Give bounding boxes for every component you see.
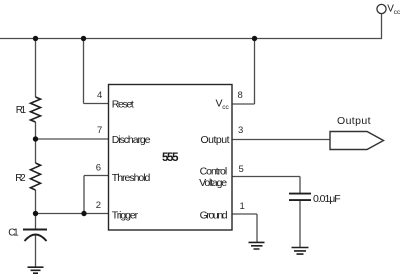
svg-text:Output: Output	[337, 115, 371, 127]
svg-text:5: 5	[239, 164, 244, 175]
svg-text:cc: cc	[222, 104, 229, 111]
svg-text:cc: cc	[394, 9, 400, 16]
svg-text:2: 2	[96, 200, 101, 211]
svg-text:8: 8	[238, 90, 243, 101]
svg-text:R1: R1	[16, 105, 27, 116]
svg-text:Output: Output	[201, 134, 230, 146]
svg-text:1: 1	[240, 201, 245, 212]
svg-text:6: 6	[96, 162, 101, 173]
svg-text:3: 3	[238, 125, 243, 136]
svg-text:0.01μF: 0.01μF	[313, 193, 341, 205]
svg-text:Voltage: Voltage	[199, 177, 227, 189]
svg-text:4: 4	[97, 90, 102, 101]
svg-text:Ground: Ground	[200, 209, 228, 221]
svg-text:C1: C1	[8, 228, 19, 239]
svg-text:555: 555	[162, 152, 179, 164]
svg-text:Control: Control	[200, 165, 228, 177]
svg-text:7: 7	[97, 125, 102, 136]
svg-text:Trigger: Trigger	[112, 209, 139, 221]
svg-text:R2: R2	[15, 173, 26, 184]
svg-text:Discharge: Discharge	[112, 134, 151, 146]
svg-text:Reset: Reset	[112, 98, 134, 110]
svg-text:Threshold: Threshold	[112, 172, 151, 184]
